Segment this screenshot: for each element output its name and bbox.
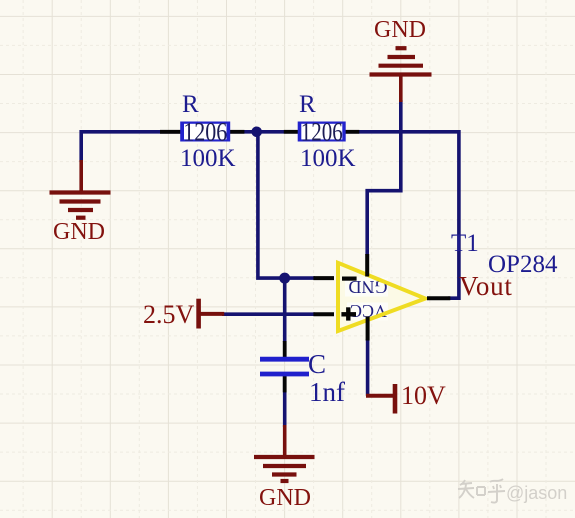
pin: op-amp output pin bbox=[427, 296, 450, 300]
label: net GND (left) bbox=[53, 219, 105, 246]
wire: top GND stem down crossing main wire to jog bbox=[367, 100, 401, 255]
op-amp U1 body fill bbox=[338, 263, 425, 331]
label: part OP284 bbox=[488, 251, 557, 279]
ground symbol left bbox=[50, 160, 111, 218]
op-amp inverting input marker bbox=[342, 277, 357, 281]
junction node A dot bbox=[251, 127, 262, 138]
label: value 100K (R2) bbox=[300, 145, 356, 173]
label: designator R (R2) bbox=[299, 91, 316, 119]
capacitor C plates bbox=[260, 357, 309, 362]
pin: op-amp inverting input pin bbox=[313, 276, 334, 280]
pin: op-amp VCC power pin (bottom) bbox=[366, 317, 370, 341]
pin: R1 left pin bbox=[160, 130, 181, 134]
label: net GND (bottom) bbox=[259, 485, 311, 512]
resistor R2 body bbox=[299, 123, 344, 140]
label: port 2.5V bbox=[143, 300, 194, 330]
ground symbol bottom bbox=[254, 425, 315, 481]
label: net Vout bbox=[459, 271, 513, 302]
pin: op-amp GND power pin (top) bbox=[365, 254, 369, 277]
op-amp U1 body border bbox=[338, 263, 425, 331]
wire: main horizontal net from left GND riser through R1, node A, R2 to right corner bbox=[81, 132, 459, 162]
ground symbol top (inverted) bbox=[370, 48, 432, 102]
label: designator C bbox=[308, 349, 326, 380]
wire: capacitor bottom to ground bbox=[283, 375, 287, 427]
wire: node B down to capacitor bbox=[283, 278, 287, 342]
power port 10V bar and stub bbox=[366, 384, 395, 414]
wire: node A vertical drop and turn to inverting input bbox=[258, 130, 315, 278]
pin: capacitor bottom pin bbox=[283, 376, 287, 392]
svg-text:@jason: @jason bbox=[506, 483, 567, 503]
wire: op-amp VCC pin down to 10V port bbox=[366, 339, 370, 396]
label: designator R (R1) bbox=[182, 91, 199, 119]
label: port 10V bbox=[401, 381, 446, 411]
label: net GND (top) bbox=[374, 17, 426, 44]
label: designator T1 bbox=[451, 230, 479, 258]
svg-text:1206: 1206 bbox=[183, 118, 227, 147]
label: value 100K (R1) bbox=[180, 145, 236, 173]
svg-text:1206: 1206 bbox=[301, 118, 343, 147]
pin: R2 right pin bbox=[346, 130, 360, 134]
pin: R2 left pin bbox=[284, 130, 298, 134]
power port 2.5V bar and stub bbox=[199, 299, 225, 329]
label: value 1nf bbox=[309, 377, 345, 408]
wire: right vertical drop to output corner bbox=[448, 130, 459, 298]
junction node B dot bbox=[279, 273, 290, 284]
resistor R1 body bbox=[182, 123, 229, 140]
pin: capacitor top pin bbox=[283, 341, 287, 357]
op-amp non-inverting input marker bbox=[341, 312, 356, 316]
pin: R1 right pin bbox=[230, 130, 244, 134]
watermark zhihu @jason bbox=[457, 475, 575, 505]
wire: 2.5V line to non-inverting input bbox=[222, 312, 315, 316]
op-amp pin-name background cells bbox=[345, 278, 388, 297]
pin: op-amp non-inverting input pin bbox=[313, 312, 334, 316]
